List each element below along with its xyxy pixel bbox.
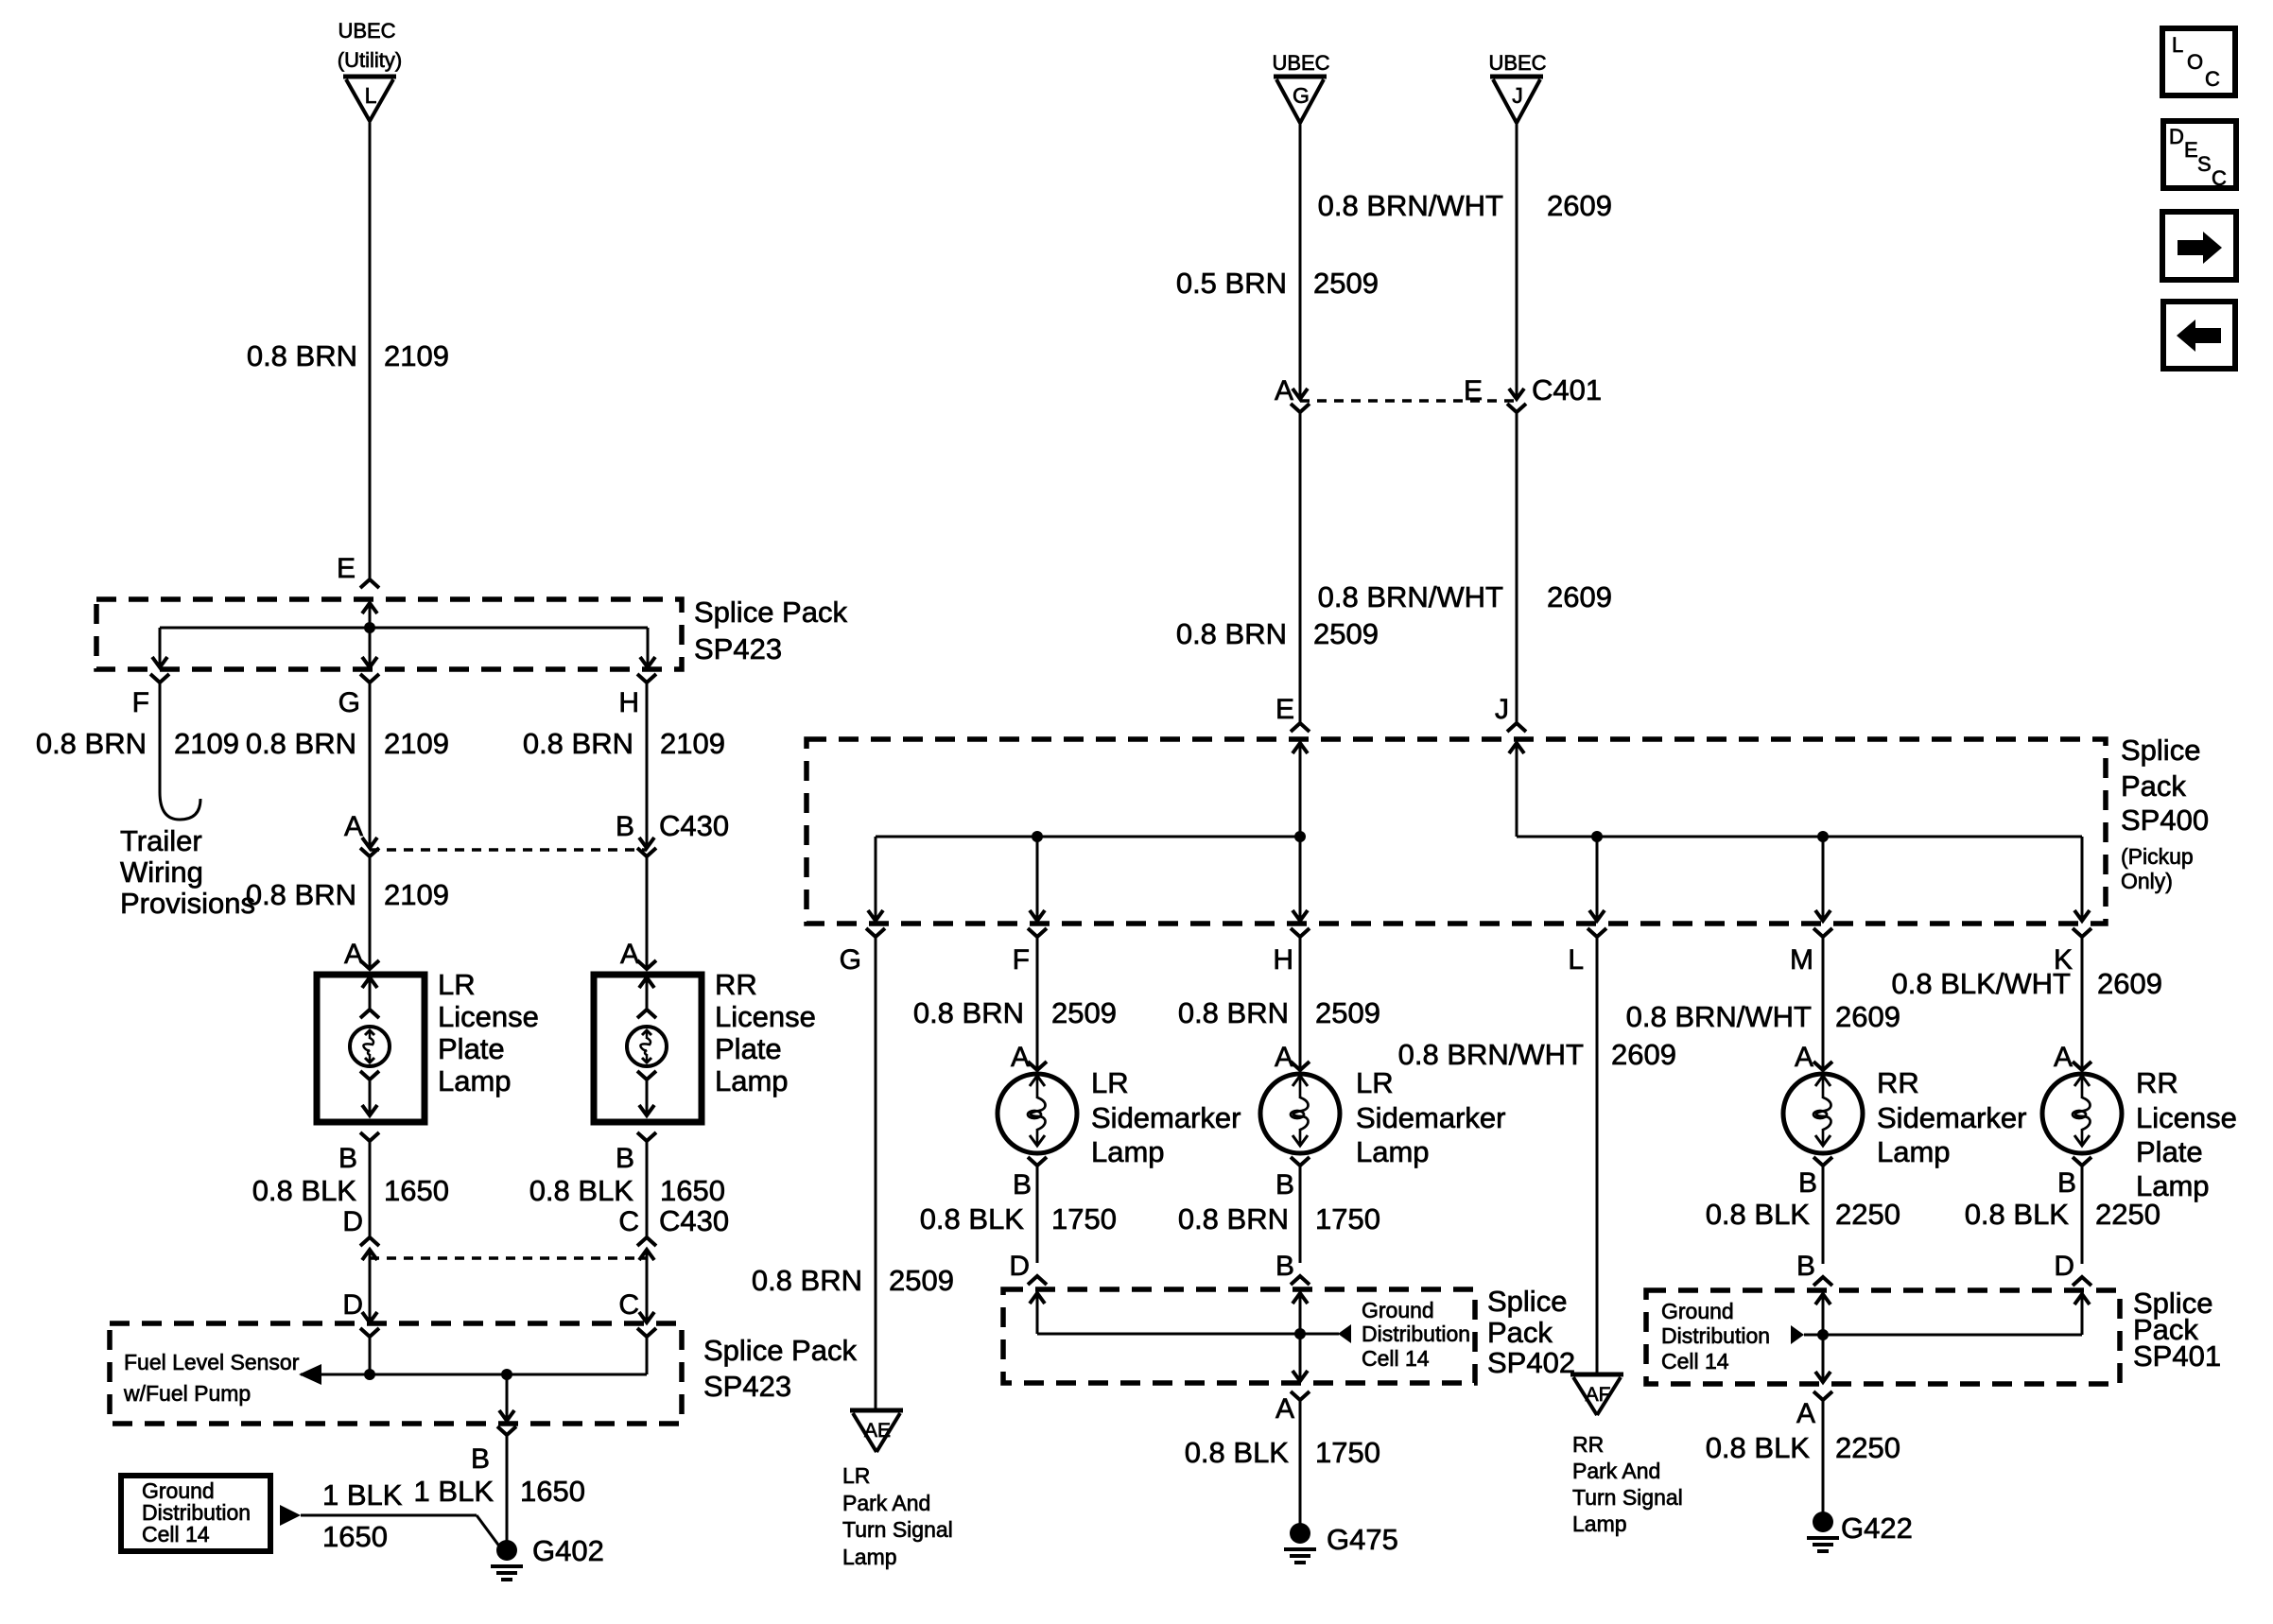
svg-text:0.8 BLK: 0.8 BLK [1965,1198,2070,1231]
svg-text:SP423: SP423 [703,1370,791,1403]
label 0.8 BRN/WHT 2609 upper [1318,189,1612,222]
pin label F [132,687,149,718]
pin label B at C430 [616,811,634,842]
pin label D at SP402 [1009,1251,1030,1282]
svg-text:0.8 BRN/WHT: 0.8 BRN/WHT [1398,1038,1584,1071]
chevron above C430 lower on D wire [360,1237,379,1246]
svg-text:G: G [1293,83,1310,108]
SP400 branch drop pin M [1815,837,1831,921]
svg-text:Distribution: Distribution [1661,1323,1770,1348]
svg-text:F: F [1013,944,1030,976]
ground G422 [1807,1512,1913,1551]
label C430 [659,809,729,842]
wire 0.8 BLK 1650 from LR lamp [369,1141,372,1237]
SP401 pass wire at B [1815,1294,1831,1382]
svg-text:C430: C430 [659,1204,729,1237]
chevron below RR lamp pin B [637,1132,656,1141]
svg-text:UBEC: UBEC [1272,51,1329,75]
wire C to fuel sender [639,1250,654,1322]
svg-text:2250: 2250 [2095,1198,2160,1231]
svg-text:2509: 2509 [1315,996,1380,1029]
svg-text:Only): Only) [2121,869,2173,893]
pin label B at SP401 [1796,1251,1815,1282]
svg-text:Provisions: Provisions [120,887,255,920]
pin label D at SP401 [2054,1251,2074,1282]
svg-text:2109: 2109 [174,727,239,760]
wire SP400 K to RR license lamp [2081,937,2084,1070]
svg-text:D: D [2169,125,2184,148]
svg-text:Park And: Park And [842,1491,930,1515]
label LR Sidemarker Lamp [1091,1066,1241,1168]
SP401 riser to D [2074,1294,2090,1335]
svg-text:B: B [2057,1167,2076,1199]
pin label L [1568,944,1584,976]
pin label H [618,687,639,718]
fuel box internal bus [301,1373,647,1376]
fuel box ground drop [499,1374,514,1421]
label 0.8 BRN 1750 [1178,1202,1380,1235]
chevron below C430 on H wire [637,848,656,856]
label 0.8 BRN 2109 on F wire [36,727,239,760]
arrow up at C430 lower D side [362,1250,377,1267]
fuel level sensor splice box SP423 [110,1323,682,1424]
svg-text:C: C [618,1289,639,1321]
svg-text:UBEC: UBEC [1488,51,1546,75]
chevron above SP402 B [1291,1276,1310,1285]
label 0.8 BRN 2509 at E [1176,617,1379,650]
svg-text:G402: G402 [532,1534,604,1567]
svg-text:2509: 2509 [1051,996,1117,1029]
pin label D at C430 lower [342,1206,363,1237]
arrow to fuel level sensor [299,1364,321,1385]
pin label G [840,944,861,976]
wire 0.8 BRN 2109 H to connector C430 pin B [639,682,654,848]
pin label H [1273,944,1293,976]
svg-text:B: B [471,1443,490,1475]
SP400 feed arrow up at E [1293,743,1308,837]
splice pack SP401 box [1646,1290,2120,1384]
splice pack SP400 box [807,739,2106,924]
svg-text:E: E [1275,694,1294,725]
svg-text:License: License [715,1000,816,1033]
svg-text:A: A [1795,1042,1813,1073]
svg-text:1650: 1650 [520,1475,585,1508]
wire 0.8 BRN 2109 from UBEC L to SP423 pin E [369,121,372,579]
pin label G [338,687,360,718]
label 0.8 BRN/WHT 2609 L wire [1398,1038,1676,1071]
connector UBEC pin G [1272,51,1329,123]
svg-text:Park And: Park And [1572,1459,1660,1483]
chevron below SP423 pin H [637,674,656,682]
pin label J at SP400 [1495,694,1509,725]
svg-text:A: A [620,939,639,970]
svg-text:LR: LR [1091,1066,1129,1099]
chevron above SP402 D [1028,1276,1047,1285]
chevron below SP400 pin H [1291,928,1310,937]
wire trailer provisions pigtail hook [160,682,200,820]
svg-text:L: L [2172,33,2183,57]
svg-text:D: D [342,1289,363,1321]
wire D to fuel sender [362,1250,377,1322]
pin label A below SP402 [1275,1393,1294,1425]
svg-text:B: B [616,1143,634,1174]
label RR Sidemarker Lamp [1877,1066,2027,1168]
svg-text:C401: C401 [1532,373,1602,406]
svg-text:2609: 2609 [1611,1038,1676,1071]
chevron below fuel box pin B [497,1426,516,1435]
connector chevron at E [360,579,379,588]
connector UBEC (Utility) pin L [338,19,402,121]
svg-text:A: A [1796,1398,1815,1429]
pin label B LR sidemarker 2 [1275,1169,1294,1201]
label LR License Plate Lamp [438,968,539,1097]
pin label A at C430 [344,811,363,842]
wire SP400 M to RR sidemarker [1822,937,1825,1070]
svg-text:G422: G422 [1841,1512,1913,1545]
chevron below LR lamp pin B [360,1132,379,1141]
chevron below SP400 pin M [1813,928,1832,937]
svg-text:0.8 BRN: 0.8 BRN [752,1264,862,1297]
svg-text:1650: 1650 [322,1520,388,1553]
svg-text:0.8 BRN: 0.8 BRN [1178,1202,1289,1235]
SP423 branch drop pin F [152,628,167,667]
svg-text:2609: 2609 [1835,1000,1900,1033]
svg-text:1 BLK: 1 BLK [322,1478,403,1512]
wire 0.8 BLK 1650 from RR lamp [646,1141,649,1237]
RR Sidemarker Lamp bulb [1783,1074,1863,1153]
RR License Plate Lamp bulb right [2042,1074,2122,1153]
svg-text:0.8 BLK: 0.8 BLK [1185,1436,1290,1469]
pin label D lower [342,1289,363,1321]
SP401 internal bus [1804,1334,2082,1337]
chevron below SP400 pin G [866,928,885,937]
label 0.8 BRN 2509 H wire [1178,996,1380,1029]
LR Sidemarker Lamp bulb [998,1074,1077,1153]
junction dot fuel bus 1 [364,1369,375,1380]
svg-text:LR: LR [438,968,476,1001]
connector chevron at SP400 E [1291,723,1310,732]
wire 0.8 BLK 1750 to G475 [1299,1400,1302,1533]
svg-text:2509: 2509 [1313,267,1379,300]
label 0.8 BRN 2509 F wire [913,996,1117,1029]
svg-text:0.5 BRN: 0.5 BRN [1176,267,1287,300]
chevron at RR license A [2073,1062,2091,1070]
splice pack SP423 box [96,599,682,669]
chevron above SP401 B [1813,1277,1832,1286]
svg-text:Sidemarker: Sidemarker [1091,1101,1241,1134]
svg-text:2609: 2609 [1547,189,1612,222]
label 0.8 BRN/WHT 2609 lower [1318,580,1612,613]
svg-text:0.8 BLK: 0.8 BLK [1706,1431,1811,1464]
chevron inside fuel box C [637,1328,656,1337]
svg-text:2109: 2109 [384,878,449,911]
svg-text:1750: 1750 [1315,1202,1380,1235]
label Splice Pack SP402 [1487,1285,1575,1379]
RR License Plate Lamp bulb [627,977,667,1115]
label LR Sidemarker Lamp 2 [1356,1066,1506,1168]
pin label C at C430 lower [618,1206,639,1237]
junction dot SP400 left bus H [1294,831,1306,842]
wire 1 BLK 1650 to G402 [506,1435,509,1550]
svg-text:Sidemarker: Sidemarker [1356,1101,1506,1134]
svg-text:B: B [1013,1169,1032,1201]
label 0.8 BRN 2109 [247,339,449,372]
svg-text:0.8 BRN: 0.8 BRN [1176,617,1287,650]
pin label C lower [618,1289,639,1321]
pin label B LR sidemarker [1013,1169,1032,1201]
SP402 internal bus [1037,1333,1339,1336]
pin label A LR sidemarker 2 [1275,1042,1293,1073]
label C401 [1532,373,1602,406]
label RR Park And Turn Signal Lamp [1572,1432,1683,1536]
svg-text:1650: 1650 [660,1174,725,1207]
wire SP400 G to AE lamp [875,937,877,1410]
svg-text:0.8 BRN: 0.8 BRN [913,996,1024,1029]
label 0.8 BLK 2250 ground [1706,1431,1900,1464]
svg-text:A: A [1275,375,1293,406]
svg-text:0.8 BRN: 0.8 BRN [1178,996,1289,1029]
svg-text:UBEC: UBEC [338,19,395,43]
wire 0.8 BRN/WHT 2609 to SP400 pin J [1516,412,1518,723]
svg-text:Wiring: Wiring [120,855,203,889]
svg-text:A: A [344,939,363,970]
svg-text:Trailer: Trailer [120,824,202,857]
label 0.8 BRN 2109 below C430 [246,878,449,911]
svg-text:0.8 BRN: 0.8 BRN [246,727,356,760]
label 0.8 BRN 2109 on H wire [523,727,725,760]
svg-text:Lamp: Lamp [715,1064,789,1097]
svg-text:H: H [1273,944,1293,976]
pin label B RR license [2057,1167,2076,1199]
label 0.8 BRN 2109 on G wire [246,727,449,760]
svg-text:LR: LR [1356,1066,1394,1099]
LOC nav box [2162,28,2235,95]
LR License Plate Lamp box [317,975,425,1122]
svg-text:AE: AE [864,1420,891,1442]
chevron below SP423 pin F [150,674,169,682]
chevron below SP400 pin L [1588,928,1606,937]
connector chevron at SP400 J [1507,723,1526,732]
svg-text:C: C [618,1206,639,1237]
chevron below RR license B [2073,1157,2091,1166]
svg-text:0.8 BLK: 0.8 BLK [920,1202,1025,1235]
svg-text:Pack: Pack [2121,769,2186,803]
pin label B below RR lamp [616,1143,634,1174]
svg-text:1750: 1750 [1315,1436,1380,1469]
svg-text:D: D [2054,1251,2074,1282]
RR License Plate Lamp box [594,975,702,1122]
chevron inside fuel box D [360,1328,379,1337]
connector AE LR park turn lamp [850,1410,903,1452]
ground G475 [1284,1523,1398,1563]
pin label F [1013,944,1030,976]
label Splice Pack SP423 lower [703,1334,857,1403]
pin label A at C401 [1275,375,1293,406]
wire 0.5 BRN 2509 from UBEC G [1293,123,1308,399]
pin label A below SP401 [1796,1398,1815,1429]
svg-text:1650: 1650 [384,1174,449,1207]
svg-text:Cell 14: Cell 14 [142,1522,210,1546]
junction dot SP400 right bus M [1817,831,1829,842]
chevron below LR sidemarker B [1028,1157,1047,1166]
svg-text:D: D [1009,1251,1030,1282]
svg-text:1750: 1750 [1051,1202,1117,1235]
connector AF RR park turn lamp [1570,1374,1623,1415]
svg-text:(Utility): (Utility) [338,48,402,72]
SP400 branch drop pin H [1293,837,1308,921]
svg-text:Lamp: Lamp [842,1545,897,1569]
svg-text:A: A [344,811,363,842]
svg-text:0.8 BLK: 0.8 BLK [529,1174,634,1207]
label Ground Distribution Cell 14 SP401 [1661,1299,1770,1373]
ground G402 [491,1534,604,1580]
pin label E at C401 [1464,375,1483,406]
LR License Plate Lamp bulb [350,977,390,1115]
svg-text:2109: 2109 [384,339,449,372]
label Ground Distribution Cell 14 [142,1478,251,1546]
svg-text:Fuel Level Sensor: Fuel Level Sensor [124,1350,300,1374]
svg-text:0.8 BRN: 0.8 BRN [247,339,357,372]
pin label M [1790,944,1813,976]
wire 0.8 BRN 2109 to LR lamp [369,856,372,969]
chevron at RR lamp pin A [637,960,656,969]
svg-text:J: J [1512,83,1523,108]
wire 0.8 BLK 2250 RR license [2081,1166,2084,1264]
label LR Park And Turn Signal Lamp [842,1463,953,1569]
SP402 pass wire at B [1293,1293,1308,1381]
pin label B at SP402 [1275,1251,1294,1282]
svg-text:SP400: SP400 [2121,803,2209,837]
svg-text:M: M [1790,944,1813,976]
svg-text:Distribution: Distribution [1362,1322,1470,1346]
junction dot SP400 left bus F [1032,831,1043,842]
DESC nav box [2163,121,2236,190]
svg-text:Lamp: Lamp [1091,1135,1165,1168]
SP400 left bus [876,836,1300,838]
wire 0.8 BLK 1750 LR sidemarker [1036,1166,1039,1263]
chevron at LR sidemarker 2 A [1291,1062,1310,1070]
chevron below SP423 pin G [360,674,379,682]
svg-text:Splice: Splice [1487,1285,1567,1318]
chevron below LR sidemarker 2 B [1291,1157,1310,1166]
arrow up at C430 lower C side [639,1250,654,1267]
ground distribution wire [301,1514,477,1517]
SP401 ground distribution arrow [1791,1325,1804,1344]
svg-text:G475: G475 [1327,1523,1398,1556]
pin label A at LR lamp [344,939,363,970]
svg-text:0.8 BLK: 0.8 BLK [252,1174,357,1207]
svg-text:0.8 BRN: 0.8 BRN [246,878,356,911]
SP400 branch drop pin L [1589,837,1605,921]
svg-text:2509: 2509 [889,1264,954,1297]
label 0.8 BLK 1650 LR [252,1174,449,1207]
label 0.8 BLK/WHT 2609 K wire [1892,967,2162,1000]
junction dot SP400 right bus L [1591,831,1603,842]
svg-text:A: A [2054,1042,2073,1073]
svg-text:S: S [2197,152,2212,176]
junction dot fuel bus 2 [501,1369,512,1380]
arrow from ground distribution [280,1505,301,1526]
pin label B below LR lamp [338,1143,357,1174]
fuel box internal wire C [646,1337,649,1374]
label Splice Pack SP401 [2133,1287,2221,1373]
svg-text:Ground: Ground [1661,1299,1734,1323]
SP400 branch drop pin G [868,837,883,921]
label RR License Plate Lamp [715,968,816,1097]
wire 0.8 BRN 2109 G to connector C430 pin A [362,682,377,848]
label Splice Pack SP423 [694,596,847,665]
junction dot SP423 bus [364,622,375,633]
svg-text:AF: AF [1586,1384,1611,1406]
chevron below C430 on G wire [360,848,379,856]
wire 0.8 BRN 1750 LR sidemarker 2 [1299,1166,1302,1263]
pin E of SP423 [337,553,356,584]
label RR License Plate Lamp right [2136,1066,2237,1202]
svg-text:LR: LR [842,1463,870,1488]
svg-text:Plate: Plate [2136,1135,2203,1168]
svg-text:F: F [132,687,149,718]
SP400 feed arrow up at J [1509,743,1524,837]
svg-text:SP402: SP402 [1487,1346,1575,1379]
in-line connector C430 lower dashed line [370,1256,647,1260]
svg-text:A: A [1275,1393,1294,1425]
svg-text:Lamp: Lamp [1356,1135,1430,1168]
pin label A at RR lamp [620,939,639,970]
svg-text:0.8 BLK/WHT: 0.8 BLK/WHT [1892,967,2072,1000]
label 1 BLK 1650 vertical [414,1475,585,1508]
svg-text:C: C [2212,166,2227,190]
label 0.8 BLK 1750 [920,1202,1117,1235]
svg-text:0.8 BRN/WHT: 0.8 BRN/WHT [1626,1000,1812,1033]
label 0.8 BLK 1750 ground [1185,1436,1380,1469]
svg-text:RR: RR [715,968,757,1001]
chevron below C401 A side [1291,404,1310,412]
chevron below RR sidemarker B [1813,1157,1832,1166]
junction dot SP402 [1294,1328,1306,1339]
svg-text:Ground: Ground [1362,1298,1434,1322]
svg-text:SP401: SP401 [2133,1339,2221,1373]
label Splice Pack SP400 Pickup Only [2121,734,2209,893]
chevron below SP400 pin F [1028,928,1047,937]
SP400 branch drop pin K [2074,837,2090,921]
SP400 right bus [1517,836,2082,838]
connector UBEC pin J [1488,51,1546,123]
svg-text:Turn Signal: Turn Signal [842,1517,953,1542]
svg-text:Splice Pack: Splice Pack [703,1334,857,1367]
svg-text:Lamp: Lamp [438,1064,512,1097]
svg-text:B: B [616,811,634,842]
svg-text:2609: 2609 [2097,967,2162,1000]
svg-text:B: B [1275,1169,1294,1201]
pin label A RR license lamp [2054,1042,2073,1073]
label Fuel Level Sensor w/Fuel Pump [123,1350,300,1406]
svg-text:E: E [337,553,356,584]
svg-text:Lamp: Lamp [1877,1135,1951,1168]
SP423 branch drop pin H [640,628,655,667]
svg-text:D: D [342,1206,363,1237]
label 0.8 BRN/WHT 2609 M wire [1626,1000,1900,1033]
svg-text:RR: RR [1877,1066,1919,1099]
chevron above C430 lower on C wire [637,1237,656,1246]
label Ground Distribution Cell 14 SP402 [1362,1298,1470,1371]
chevron at RR sidemarker A [1813,1062,1832,1070]
svg-text:RR: RR [1572,1432,1604,1457]
SP423 feed arrow up at pin E [362,603,377,628]
pin label A RR sidemarker [1795,1042,1813,1073]
svg-text:2250: 2250 [1835,1198,1900,1231]
in-line connector C430 upper dashed line [370,848,647,852]
pin label K [2054,944,2073,976]
